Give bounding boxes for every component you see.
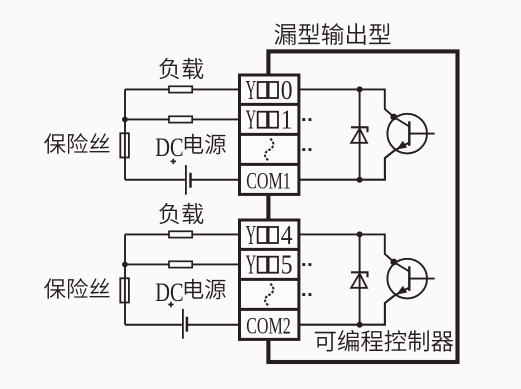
- fuse F1 (保险丝) section 1: [120, 133, 129, 157]
- resistor R1 load (负载) on Y**0 line, section 1: [169, 86, 192, 92]
- wire: COM return to battery section 2: [125, 324, 182, 326]
- battery BT1 negative plate (short), section 1: [189, 173, 192, 188]
- wire: COM1 terminal to transistor emitter section 1: [300, 143, 409, 180]
- battery BT1 + polarity mark: [171, 159, 176, 164]
- svg-text:COM1: COM1: [246, 169, 291, 194]
- terminal label Y**0 section 1: [246, 75, 293, 105]
- transistor Q2 base lead section 2: [409, 278, 434, 280]
- label 电源 (power) section 2: [185, 279, 226, 299]
- node: emitter-side junction dot on COM2 wire section 2: [357, 322, 363, 328]
- svg-text:Y: Y: [246, 105, 257, 135]
- transistor Q2 emitter arrow section 2: [398, 287, 406, 294]
- node: emitter-side junction dot on COM1 wire section 1: [357, 177, 363, 183]
- placeholder boxes row1 section 1: [258, 82, 278, 98]
- squiggle continuation symbol section 1: [265, 139, 273, 161]
- svg-text:0: 0: [281, 75, 293, 105]
- diode D2 zener triangle section 2: [351, 274, 367, 288]
- wire: Y**4 terminal to transistor collector section 2: [300, 234, 409, 271]
- diode D2 zener cathode bar section 2: [351, 272, 368, 277]
- transistor Q1 circle section 1: [387, 114, 427, 154]
- resistor R3 load (负载) on Y**4 line, section 2: [169, 231, 192, 237]
- diode D1 zener cathode bar section 1: [351, 127, 368, 132]
- squiggle continuation symbol section 2: [265, 284, 273, 306]
- continuation dots row3 section 1: [302, 148, 311, 151]
- svg-text:1: 1: [281, 105, 293, 135]
- svg-text:DC: DC: [155, 278, 183, 307]
- label 保险丝 (fuse) section 2: [44, 278, 109, 299]
- battery BT2 negative plate (short), section 2: [186, 317, 189, 332]
- label 负载 (load) section 2: [159, 203, 203, 224]
- continuation dots row2 section 2: [302, 263, 311, 266]
- placeholder boxes row1 section 2: [258, 227, 278, 243]
- transistor Q2 base bar section 2: [408, 266, 410, 291]
- node: collector junction dot section 2: [357, 231, 363, 237]
- wire: battery to COM1 terminal section 1: [191, 179, 240, 181]
- svg-text:5: 5: [281, 250, 293, 280]
- diode D1 zener triangle section 1: [351, 129, 367, 143]
- placeholder boxes row2 section 2: [258, 257, 278, 273]
- fuse F2 (保险丝) section 2: [120, 278, 129, 302]
- battery BT2 (DC电源) positive plate (long), section 2: [182, 309, 184, 339]
- resistor R2 load (负载) on Y**1 line, section 1: [169, 116, 192, 122]
- terminal block section 1: [240, 75, 299, 194]
- node: transistor collector dot section 2: [390, 259, 397, 266]
- wire: battery to COM2 terminal section 2: [187, 324, 239, 326]
- node: collector junction dot section 1: [357, 86, 363, 92]
- continuation dots row3 section 2: [302, 293, 311, 296]
- placeholder boxes row2 section 1: [258, 112, 278, 128]
- node: junction of Y**1 branch on left bus section 1: [122, 117, 128, 123]
- svg-text:COM2: COM2: [246, 314, 291, 339]
- wire: COM return to battery section 1: [125, 179, 185, 181]
- wire: Y**4 output to load section 2: [125, 233, 239, 235]
- terminal label Y**4 section 2: [246, 220, 293, 250]
- wire: Y**0 terminal to transistor collector section 1: [300, 89, 409, 126]
- label 负载 (load) section 1: [159, 58, 203, 79]
- wire: zener diode vertical branch section 2: [359, 234, 361, 324]
- wire: Y**0 output to load section 1: [125, 88, 239, 90]
- transistor Q2 circle section 2: [387, 259, 427, 299]
- wire: Y**1 output to load section 1: [125, 118, 239, 120]
- wire: COM2 terminal to transistor emitter section 2: [300, 288, 409, 325]
- wire: zener diode vertical branch section 1: [359, 89, 361, 179]
- wire: fuse through-line section 1: [124, 133, 126, 157]
- terminal block section 2: [240, 220, 299, 339]
- resistor R4 load (负载) on Y**5 line, section 2: [169, 261, 192, 267]
- svg-text:4: 4: [281, 220, 293, 250]
- wire: fuse through-line section 2: [124, 278, 126, 302]
- svg-text:Y: Y: [246, 75, 257, 105]
- battery BT2 + polarity mark: [168, 302, 173, 307]
- transistor Q1 base bar section 1: [408, 121, 410, 146]
- label 保险丝 (fuse) section 1: [44, 133, 109, 154]
- title 漏型输出型 (sink output type): [275, 23, 391, 45]
- continuation dots row2 section 1: [302, 118, 311, 121]
- svg-text:Y: Y: [246, 250, 257, 280]
- node: junction of Y**5 branch on left bus section 2: [122, 262, 128, 268]
- svg-text:Y: Y: [246, 220, 257, 250]
- label 电源 (power) section 1: [185, 134, 226, 154]
- battery BT1 (DC电源) positive plate (long), section 1: [185, 165, 187, 195]
- wire: left vertical bus section 2: [124, 234, 126, 324]
- terminal label Y**5 section 2: [246, 250, 293, 280]
- wire: Y**5 output to load section 2: [125, 263, 239, 265]
- wire: left vertical bus section 1: [124, 89, 126, 179]
- transistor Q1 base lead section 1: [409, 133, 434, 135]
- transistor Q1 emitter arrow section 1: [398, 142, 406, 149]
- svg-text:DC: DC: [155, 133, 183, 162]
- PLC enclosure box (可编程控制器): [268, 51, 457, 362]
- node: transistor collector dot section 1: [390, 114, 397, 121]
- terminal label Y**1 section 1: [246, 105, 293, 135]
- label 可编程控制器 (programmable controller): [315, 330, 453, 352]
